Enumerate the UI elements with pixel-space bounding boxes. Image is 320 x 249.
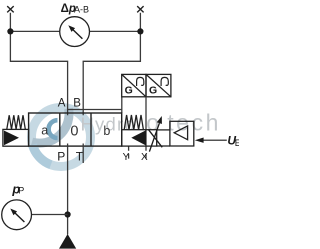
- svg-text:0: 0: [70, 124, 78, 140]
- spring right: [124, 115, 143, 130]
- UE input arrow: [195, 138, 227, 143]
- junction dot right: [137, 28, 143, 34]
- port stubs P T below valve: [68, 144, 84, 164]
- pressure gauge pP circle: [2, 200, 32, 230]
- wire: left dot to gauge1: [10, 30, 60, 32]
- svg-text:G: G: [125, 85, 133, 97]
- connector solenoid to amplifier bottom: [157, 145, 170, 147]
- svg-text:A-B: A-B: [74, 4, 89, 14]
- svg-text:G: G: [149, 85, 157, 97]
- test point X right: [137, 6, 143, 12]
- pump pressure source triangle: [59, 234, 76, 249]
- test point X left: [7, 6, 14, 12]
- label pP: [11, 181, 24, 196]
- svg-text:P: P: [57, 149, 65, 163]
- svg-text:E: E: [235, 138, 239, 148]
- wire gauge2 to junction: [31, 214, 67, 216]
- solenoid right triangle: [131, 130, 146, 145]
- wire P riser down to pump: [67, 146, 69, 234]
- wire: right test point down, across to B riser into valve port B: [83, 13, 140, 116]
- spring left: [7, 115, 26, 129]
- wire: pilot supply branch from A riser to G boxes: [68, 97, 122, 113]
- G1 curl symbol: [137, 77, 144, 86]
- counter diagonal on right solenoid: [149, 130, 163, 148]
- G2 curl symbol: [161, 77, 168, 86]
- pressure gauge dpA-B circle: [60, 17, 90, 47]
- gauge1 needle: [68, 25, 82, 39]
- solenoid left box: [3, 129, 29, 146]
- svg-text:a: a: [41, 123, 48, 137]
- connector solenoid to amplifier top: [157, 129, 170, 131]
- proportional arrow on right solenoid: [149, 116, 162, 152]
- svg-text:A: A: [58, 97, 66, 109]
- label dp A-B: [61, 3, 89, 15]
- junction dot left: [7, 28, 13, 34]
- svg-text:B: B: [73, 97, 81, 109]
- svg-text:P: P: [18, 186, 24, 196]
- pilot line Y dashes: [128, 146, 130, 158]
- label UE: [227, 134, 240, 149]
- wire: left test point down to A riser into valve port A: [10, 13, 67, 116]
- solenoid left triangle: [4, 131, 19, 146]
- svg-text:X: X: [141, 152, 148, 163]
- valve body 3 positions: [29, 113, 122, 146]
- pilot box G1: [122, 74, 146, 96]
- junction dot bottom: [65, 211, 71, 217]
- watermark logo swirl: [32, 108, 91, 167]
- amplifier triangle: [174, 126, 187, 140]
- amplifier box: [170, 121, 194, 146]
- pilot line X from G boxes down through solenoid: [145, 97, 147, 159]
- gauge2 needle: [10, 209, 24, 223]
- svg-text:Y: Y: [123, 152, 130, 163]
- pilot box G2: [146, 74, 171, 96]
- solenoid right box: [122, 130, 157, 146]
- wire: gauge1 to right dot: [89, 30, 140, 32]
- svg-text:b: b: [103, 124, 110, 138]
